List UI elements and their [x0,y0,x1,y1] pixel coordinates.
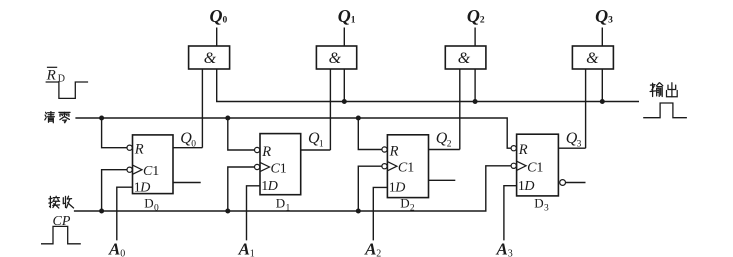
junction on clear line for D2 R input [356,116,361,121]
wire: CP line up to D2 C1 input [358,166,387,211]
input terminal A1 label [238,239,255,257]
svg-text:1: 1 [536,160,543,175]
inverting bubble on D3 C1 input [511,163,516,168]
junction on rail at G4 [600,99,605,104]
wire: CP line up to D1 C1 input [228,167,260,211]
svg-text:A: A [238,239,250,257]
junction on rail at G2 [342,99,347,104]
svg-text:&: & [586,50,599,67]
pin label 1D of D1 [261,179,278,194]
node 清零 (clear) label [45,112,70,123]
signal RD-bar label [46,67,65,84]
svg-text:D: D [400,196,409,211]
inverting bubble on D3 R input [511,146,516,151]
inverting bubble on D1 C1 input [255,164,260,169]
junction on clear line for D0 R input [99,116,104,121]
svg-text:3: 3 [577,140,582,150]
flip-flop U4 box (D3) [517,134,559,196]
svg-text:0: 0 [191,140,196,150]
inverting bubble on D0 C1 input [127,167,132,172]
CP clock pulse waveform [41,226,81,243]
svg-text:Q: Q [467,6,480,26]
wire: A3 input up to D3 1D pin [504,186,517,241]
wire: gate G1 output up to Q0 terminal [216,28,218,47]
svg-text:D: D [534,196,543,211]
svg-text:1: 1 [351,16,356,26]
wire: CP line [74,166,517,211]
flip-flop name label D3 [534,196,549,214]
Q-bar stub of D3 [566,182,586,184]
junction on CP line for D0 C1 input [99,209,104,214]
Q-bar stub of D0 [173,182,201,184]
svg-text:0: 0 [120,249,125,257]
input terminal A0 label [108,239,125,257]
wire: CP line up to D0 C1 input [102,170,133,211]
input terminal A2 label [364,239,381,257]
svg-text:D: D [267,179,278,194]
wire: gate G4 output up to Q3 terminal [601,28,603,47]
svg-text:A: A [108,239,120,257]
svg-text:3: 3 [544,204,549,214]
wire: D2 Q output to gate G3 [429,149,460,151]
svg-text:Q: Q [595,6,608,26]
output terminal Q0 label [210,6,228,26]
output strobe pulse waveform [643,103,687,118]
wire: D1 Q output to gate G2 [301,149,331,151]
wire: D3 Q output to gate G4 [558,147,585,149]
svg-text:D: D [144,196,153,211]
svg-text:1: 1 [407,161,414,176]
inverting bubble on D0 R input [127,145,132,150]
node Q1 label at flip-flop output [308,130,324,149]
svg-text:1: 1 [250,249,255,257]
svg-text:3: 3 [508,249,513,257]
flip-flop name label D0 [144,196,159,214]
svg-text:R: R [389,144,399,160]
flip-flop U2 box (D1) [260,134,301,195]
svg-text:D: D [523,179,534,194]
wire: clear line down to D0 R input [102,118,133,148]
wire: D0 Q output to gate G1 [173,147,202,149]
svg-text:R: R [46,68,56,84]
svg-text:Q: Q [338,6,351,26]
svg-text:D: D [394,181,405,196]
flip-flop name label D2 [400,196,415,214]
AND gate G4 [572,46,613,69]
svg-text:A: A [496,239,508,257]
svg-text:D: D [139,180,150,195]
wire: G3 right input down to rail [474,69,476,102]
junction on CP line for D2 C1 input [356,209,361,214]
flip-flop U1 box (D0) [133,135,174,194]
node Q2 label at flip-flop output [436,130,452,149]
AND gate G1 [189,46,230,69]
wire: A0 input up to D0 1D pin [117,187,133,240]
svg-text:0: 0 [154,204,159,214]
dynamic-input triangle of D3 [517,161,527,170]
wire: G2 right input down to rail [343,69,345,102]
junction on clear line for D1 R input [225,116,230,121]
wire: G2 left input down to Q1 line [329,69,331,150]
inverting bubble on D2 C1 input [382,164,387,169]
svg-text:A: A [364,239,376,257]
svg-text:2: 2 [410,204,415,214]
wire: G1 left input down to Q0 line [201,69,203,148]
wire: clear line down to D2 R input [358,118,387,150]
svg-text:&: & [329,50,342,67]
pin label 1D of D3 [518,179,535,194]
dynamic-input triangle of D0 [133,165,143,174]
wire: gate G3 output up to Q2 terminal [474,28,476,47]
flip-flop U3 box (D2) [387,135,428,198]
svg-text:R: R [134,142,144,158]
pin label 1D of D2 [389,181,406,196]
AND gate G3 [445,46,486,69]
node Q3 label at flip-flop output [566,130,582,149]
svg-text:2: 2 [376,249,381,257]
svg-text:1: 1 [319,140,324,150]
pin label C1 of D0 [143,164,159,179]
node Q0 label at flip-flop output [180,130,196,149]
wire: G3 left input down to Q2 line [459,69,461,150]
input terminal A3 label [496,239,513,257]
inverting bubble on D3 Q-bar output [560,180,566,186]
wire: G1 right input down to output-strobe rail [217,69,639,102]
svg-text:2: 2 [447,140,452,150]
inverting bubble on D2 R input [382,147,387,152]
wire: clear line [75,118,516,148]
svg-text:2: 2 [480,16,485,26]
flip-flop name label D1 [276,196,291,214]
pin label C1 of D1 [271,162,287,177]
wire: gate G2 output up to Q1 terminal [343,28,345,47]
wire: A1 input up to D1 1D pin [247,186,261,241]
svg-text:Q: Q [210,6,223,26]
svg-text:R: R [261,144,271,160]
RD-bar negative pulse waveform [46,82,89,98]
wire: G4 left input down to Q3 line [585,69,587,148]
junction on rail at G3 [473,99,478,104]
pin label C1 of D3 [527,160,543,175]
output terminal Q2 label [467,6,485,26]
output terminal Q1 label [338,6,356,26]
wire: G4 right input down to rail [601,69,603,102]
svg-text:3: 3 [608,16,613,26]
output terminal Q3 label [595,6,613,26]
AND gate G2 [316,46,356,69]
junction on CP line for D1 C1 input [225,209,230,214]
dynamic-input triangle of D2 [387,162,397,171]
svg-text:1: 1 [152,164,159,179]
pin label 1D of D0 [134,180,151,195]
svg-text:D: D [276,196,285,211]
svg-text:R: R [518,142,528,158]
svg-text:&: & [204,50,217,67]
inverting bubble on D1 R input [255,147,260,152]
svg-text:&: & [458,50,471,67]
dynamic-input triangle of D1 [260,162,270,171]
svg-text:1: 1 [286,204,291,214]
svg-text:1: 1 [280,162,287,177]
signal CP label [53,214,71,229]
wire: clear line down to D1 R input [228,118,260,150]
wire: A2 input up to D2 1D pin [373,187,387,240]
Q-bar stub of D2 [429,179,456,181]
pin label C1 of D2 [398,161,414,176]
node 输出 (output) label [650,83,677,97]
node 接收 (receive) label [49,196,74,208]
svg-text:0: 0 [223,16,228,26]
